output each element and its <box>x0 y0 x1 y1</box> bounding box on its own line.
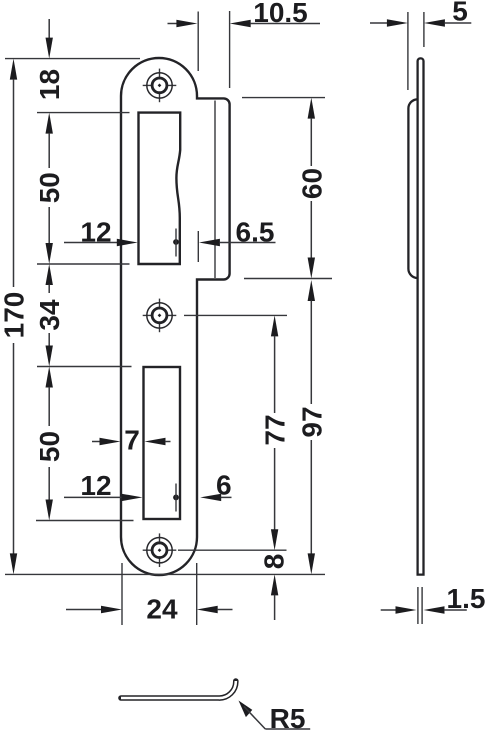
extension line plate top <box>5 58 140 60</box>
svg-text:50: 50 <box>34 172 65 203</box>
svg-text:50: 50 <box>34 431 65 462</box>
svg-text:12: 12 <box>80 217 111 248</box>
plate outline front view <box>121 58 230 575</box>
svg-text:8: 8 <box>259 554 290 570</box>
reference dot upper <box>173 229 179 257</box>
dimension 34 <box>34 264 65 367</box>
dimension 50 lower <box>34 367 65 521</box>
svg-text:97: 97 <box>296 406 327 437</box>
svg-text:18: 18 <box>34 69 65 100</box>
dimension 97 <box>296 280 327 574</box>
extension line cutout1 top <box>37 112 130 114</box>
extension line bottom hole <box>178 549 287 551</box>
dimension 12 upper <box>64 217 138 248</box>
dimension 170 <box>0 59 30 575</box>
dimension 7 <box>92 425 171 456</box>
extension line plate bottom <box>5 573 325 575</box>
dimension 60 <box>296 98 327 279</box>
dimension 5 <box>370 0 471 90</box>
latch cutout lower <box>144 367 181 519</box>
dimension 6.5 <box>199 217 276 248</box>
lip bend line <box>214 101 216 279</box>
extension line cutout1 bottom <box>37 263 130 265</box>
screw hole bottom <box>143 533 177 567</box>
svg-text:6: 6 <box>216 470 232 501</box>
extension line lip top right <box>242 97 325 99</box>
reference dot lower <box>173 484 179 512</box>
dimension 10.5 <box>168 0 321 88</box>
svg-text:7: 7 <box>124 425 140 456</box>
svg-text:5: 5 <box>452 0 468 26</box>
svg-text:12: 12 <box>80 470 111 501</box>
dimension 24 <box>66 563 233 625</box>
dimension 1.5 <box>381 583 486 624</box>
svg-text:10.5: 10.5 <box>253 0 308 28</box>
extension line cutout2 top <box>37 366 132 368</box>
svg-text:6.5: 6.5 <box>236 217 275 248</box>
svg-text:77: 77 <box>260 414 291 445</box>
svg-text:R5: R5 <box>270 703 306 730</box>
dimension 77 <box>260 315 291 550</box>
extension line middle hole <box>184 314 287 316</box>
extension line lip bottom right <box>244 278 332 280</box>
extension line plate right edge short <box>197 231 199 262</box>
screw hole middle <box>143 299 177 333</box>
side view plate profile <box>418 58 424 574</box>
dimension 12 lower <box>64 470 143 501</box>
extension line cutout2 bottom <box>36 520 134 522</box>
side view lip bend <box>408 99 417 278</box>
dimension 18 <box>34 19 65 100</box>
svg-text:24: 24 <box>146 594 178 625</box>
leader R5 <box>239 701 311 730</box>
screw hole top <box>143 69 177 103</box>
dimension 6 <box>200 470 231 502</box>
dimension 50 upper <box>34 113 65 264</box>
latch cutout upper <box>139 113 181 264</box>
lip cross-section detail <box>121 681 236 698</box>
dimension 8 <box>259 554 290 620</box>
svg-text:1.5: 1.5 <box>447 583 486 614</box>
svg-text:60: 60 <box>296 168 327 199</box>
svg-text:34: 34 <box>34 299 65 331</box>
svg-text:170: 170 <box>0 292 30 339</box>
